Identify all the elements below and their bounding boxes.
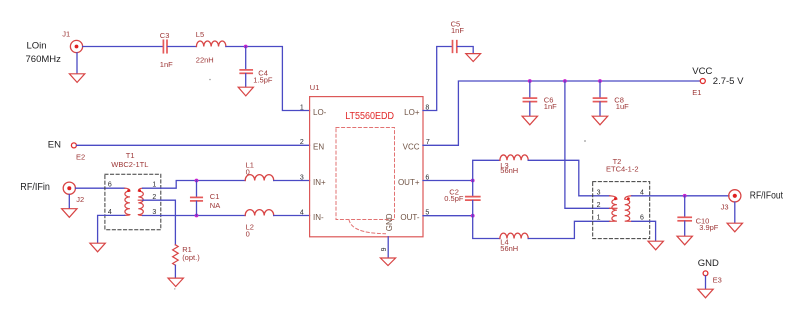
svg-text:6: 6 xyxy=(108,182,112,189)
svg-text:3: 3 xyxy=(597,189,601,196)
inductor L3 xyxy=(500,155,528,160)
wire U1 pin6 to C2 junction xyxy=(423,180,473,182)
node OUT+ junction xyxy=(471,179,475,183)
svg-text:IN-: IN- xyxy=(313,213,324,222)
wire C10 to ground xyxy=(684,221,686,236)
wire E3 stem xyxy=(705,276,707,289)
U1 exposed pad dashed xyxy=(336,128,395,220)
svg-text:J2: J2 xyxy=(76,195,84,204)
wire J1 stem xyxy=(76,53,78,74)
svg-text:OUT+: OUT+ xyxy=(398,178,420,187)
wire C2 bottom stem xyxy=(472,201,474,216)
node C8 junction xyxy=(598,79,602,83)
capacitor C3 xyxy=(163,40,167,52)
svg-text:3: 3 xyxy=(300,174,304,181)
svg-text:1: 1 xyxy=(597,215,601,222)
svg-text:VCC: VCC xyxy=(692,66,712,77)
wire J2 stem xyxy=(68,195,70,209)
terminal E2 xyxy=(71,143,76,148)
node IN- junction xyxy=(195,214,199,218)
node T2 feed junction xyxy=(563,79,567,83)
svg-text:1nF: 1nF xyxy=(451,26,464,35)
svg-text:ETC4-1-2: ETC4-1-2 xyxy=(606,165,639,174)
capacitor C5 xyxy=(453,41,457,53)
node LO junction xyxy=(244,45,248,49)
svg-text:E3: E3 xyxy=(713,275,722,284)
wire J1 to C3 xyxy=(83,46,163,48)
svg-text:E1: E1 xyxy=(692,88,701,97)
wire J3 stem xyxy=(734,202,736,223)
svg-text:0.5pF: 0.5pF xyxy=(444,194,464,203)
T2 left phase dot xyxy=(614,197,617,200)
svg-text:RF/IFout: RF/IFout xyxy=(750,190,783,201)
ground at T2 pin6 xyxy=(648,241,663,250)
svg-text:760MHz: 760MHz xyxy=(26,54,62,65)
wire C2 top stem xyxy=(472,181,474,197)
svg-text:3.9pF: 3.9pF xyxy=(699,223,719,232)
wire C6 top stem xyxy=(529,81,531,98)
wire T2 pin4 to J3 xyxy=(632,195,729,197)
capacitor C6 xyxy=(523,98,536,102)
svg-text:RF/IFin: RF/IFin xyxy=(20,182,50,193)
capacitor C2 xyxy=(466,197,480,201)
capacitor C10 xyxy=(678,217,691,221)
capacitor C8 xyxy=(594,98,607,102)
wire U1 pin8 to C5 xyxy=(423,47,452,111)
wire C8 top stem xyxy=(599,81,601,98)
svg-text:IN+: IN+ xyxy=(313,178,326,187)
U1 pin 9 stub xyxy=(387,237,389,258)
terminal E1 xyxy=(700,79,705,84)
svg-text:1nF: 1nF xyxy=(160,60,173,69)
svg-text:LO-: LO- xyxy=(313,108,327,117)
T1 secondary center tap tick xyxy=(138,199,142,201)
ground at C5 xyxy=(466,54,481,62)
inductor L5 xyxy=(196,41,226,47)
inductor L1 xyxy=(245,175,274,181)
wire L5 to U1 pin1 corner xyxy=(226,47,310,111)
resistor R1 xyxy=(173,245,179,265)
svg-text:LO+: LO+ xyxy=(404,108,420,117)
op-amp U1 box xyxy=(310,97,423,237)
ground under R1 xyxy=(168,278,183,286)
svg-text:1: 1 xyxy=(152,182,156,189)
wire L1 to U1 pin3 xyxy=(274,180,310,182)
connector J3 xyxy=(729,190,741,202)
T2 right winding xyxy=(625,196,632,222)
svg-text:C3: C3 xyxy=(160,31,170,40)
svg-text:1.5pF: 1.5pF xyxy=(253,76,273,85)
ground under U1 pin9 xyxy=(380,258,395,266)
transformer T1 box xyxy=(105,174,161,230)
wire C6 to ground xyxy=(529,102,531,116)
connector J2 xyxy=(63,182,75,194)
svg-text:22nH: 22nH xyxy=(196,55,214,64)
svg-text:GND: GND xyxy=(698,258,719,269)
wire U1 pin5 to C2 junction xyxy=(423,215,473,217)
T1 secondary phase dot xyxy=(138,189,141,192)
wire C5 to ground xyxy=(458,47,474,54)
ground under C8 xyxy=(592,116,607,125)
svg-text:2: 2 xyxy=(300,139,304,146)
svg-text:NA: NA xyxy=(210,201,220,210)
wire C1 top stem xyxy=(196,181,198,198)
transformer T2 box xyxy=(593,182,650,239)
capacitor C4 xyxy=(240,70,252,73)
svg-text:6: 6 xyxy=(640,215,644,222)
svg-text:EN: EN xyxy=(48,139,61,150)
ground under C4 xyxy=(238,87,253,96)
svg-text:OUT-: OUT- xyxy=(400,213,419,222)
svg-text:U1: U1 xyxy=(310,83,320,92)
wire T1 pin1 to IN+ net xyxy=(143,181,246,189)
ground under E3 xyxy=(698,289,713,298)
svg-text:1nF: 1nF xyxy=(544,102,557,111)
wire T1 pin4 to ground xyxy=(98,215,125,242)
ground under T1 pin4 xyxy=(90,243,105,252)
wire C1 bottom stem xyxy=(196,201,198,215)
node C10 junction xyxy=(683,194,687,198)
svg-text:L5: L5 xyxy=(196,30,204,39)
svg-text:T1: T1 xyxy=(126,151,135,160)
wire OUT- down to L4 xyxy=(473,216,500,239)
U1 pad bond dashed curve xyxy=(349,220,386,234)
ground under J2 xyxy=(62,209,77,218)
inductor L4 xyxy=(500,233,528,238)
svg-text:EN: EN xyxy=(313,142,324,151)
wire T1 pin2 to R1 xyxy=(143,200,176,245)
svg-text:GND: GND xyxy=(385,213,394,231)
wire R1 to ground xyxy=(174,265,176,278)
node OUT- junction xyxy=(471,214,475,218)
svg-text:9: 9 xyxy=(381,247,388,251)
svg-text:56nH: 56nH xyxy=(500,244,518,253)
wire L3 to T2 pin3 xyxy=(528,160,610,196)
connector J1 xyxy=(70,40,82,52)
svg-text:J1: J1 xyxy=(62,30,70,39)
terminal E3 xyxy=(703,271,708,276)
wire L2 to U1 pin4 xyxy=(274,215,310,217)
svg-text:56nH: 56nH xyxy=(500,166,518,175)
wire C4 to ground xyxy=(245,74,247,87)
svg-text:1uF: 1uF xyxy=(616,102,629,111)
wire T2 pin6 to ground xyxy=(632,221,656,241)
capacitor C1 xyxy=(191,197,202,201)
inductor L2 xyxy=(245,210,274,216)
svg-text:0: 0 xyxy=(246,230,250,239)
node IN+ junction xyxy=(195,179,199,183)
svg-text:WBC2-1TL: WBC2-1TL xyxy=(111,160,148,169)
svg-text:LT5560EDD: LT5560EDD xyxy=(345,111,394,122)
svg-text:C1: C1 xyxy=(210,192,220,201)
wire U1 pin7 to VCC rail xyxy=(423,81,700,145)
T2 left winding xyxy=(610,196,617,222)
T2 left winding center tap tick xyxy=(610,207,617,209)
wire C3 to L5 xyxy=(168,46,197,48)
svg-text:E2: E2 xyxy=(76,153,85,162)
wire VCC junction down to T2 pin2 xyxy=(565,81,610,208)
svg-text:2: 2 xyxy=(597,202,601,209)
wire J2 to T1 pin6 xyxy=(76,187,125,189)
svg-text:(opt.): (opt.) xyxy=(182,253,200,262)
svg-text:4: 4 xyxy=(300,209,304,216)
ground under J1 xyxy=(69,74,84,83)
T2 right phase dot xyxy=(627,197,630,200)
wire junction to C4 xyxy=(245,47,247,70)
T1 primary phase dot xyxy=(127,189,130,192)
wire C8 to ground xyxy=(599,102,601,116)
svg-text:2.7-5 V: 2.7-5 V xyxy=(713,76,744,87)
wire C10 top stem xyxy=(684,196,686,217)
T1 secondary winding xyxy=(138,188,143,215)
speck under R1 ground xyxy=(174,288,175,289)
speck near C8 xyxy=(584,140,586,142)
speck near C4 xyxy=(209,79,211,81)
ground under C6 xyxy=(522,116,537,125)
svg-text:1: 1 xyxy=(300,104,304,111)
wire OUT+ up to L3 xyxy=(473,160,500,180)
svg-text:VCC: VCC xyxy=(403,142,420,151)
wire L4 to T2 pin1 xyxy=(528,221,610,238)
wire EN to U1 pin2 xyxy=(77,144,310,146)
svg-text:J3: J3 xyxy=(721,202,729,211)
node C6 junction xyxy=(528,79,532,83)
svg-text:LOin: LOin xyxy=(27,41,47,52)
wire T1 pin3 to L2 xyxy=(143,215,246,217)
ground under J3 xyxy=(727,223,742,232)
svg-text:0: 0 xyxy=(246,167,250,176)
ground under C10 xyxy=(677,236,692,245)
T1 primary winding xyxy=(125,188,130,215)
